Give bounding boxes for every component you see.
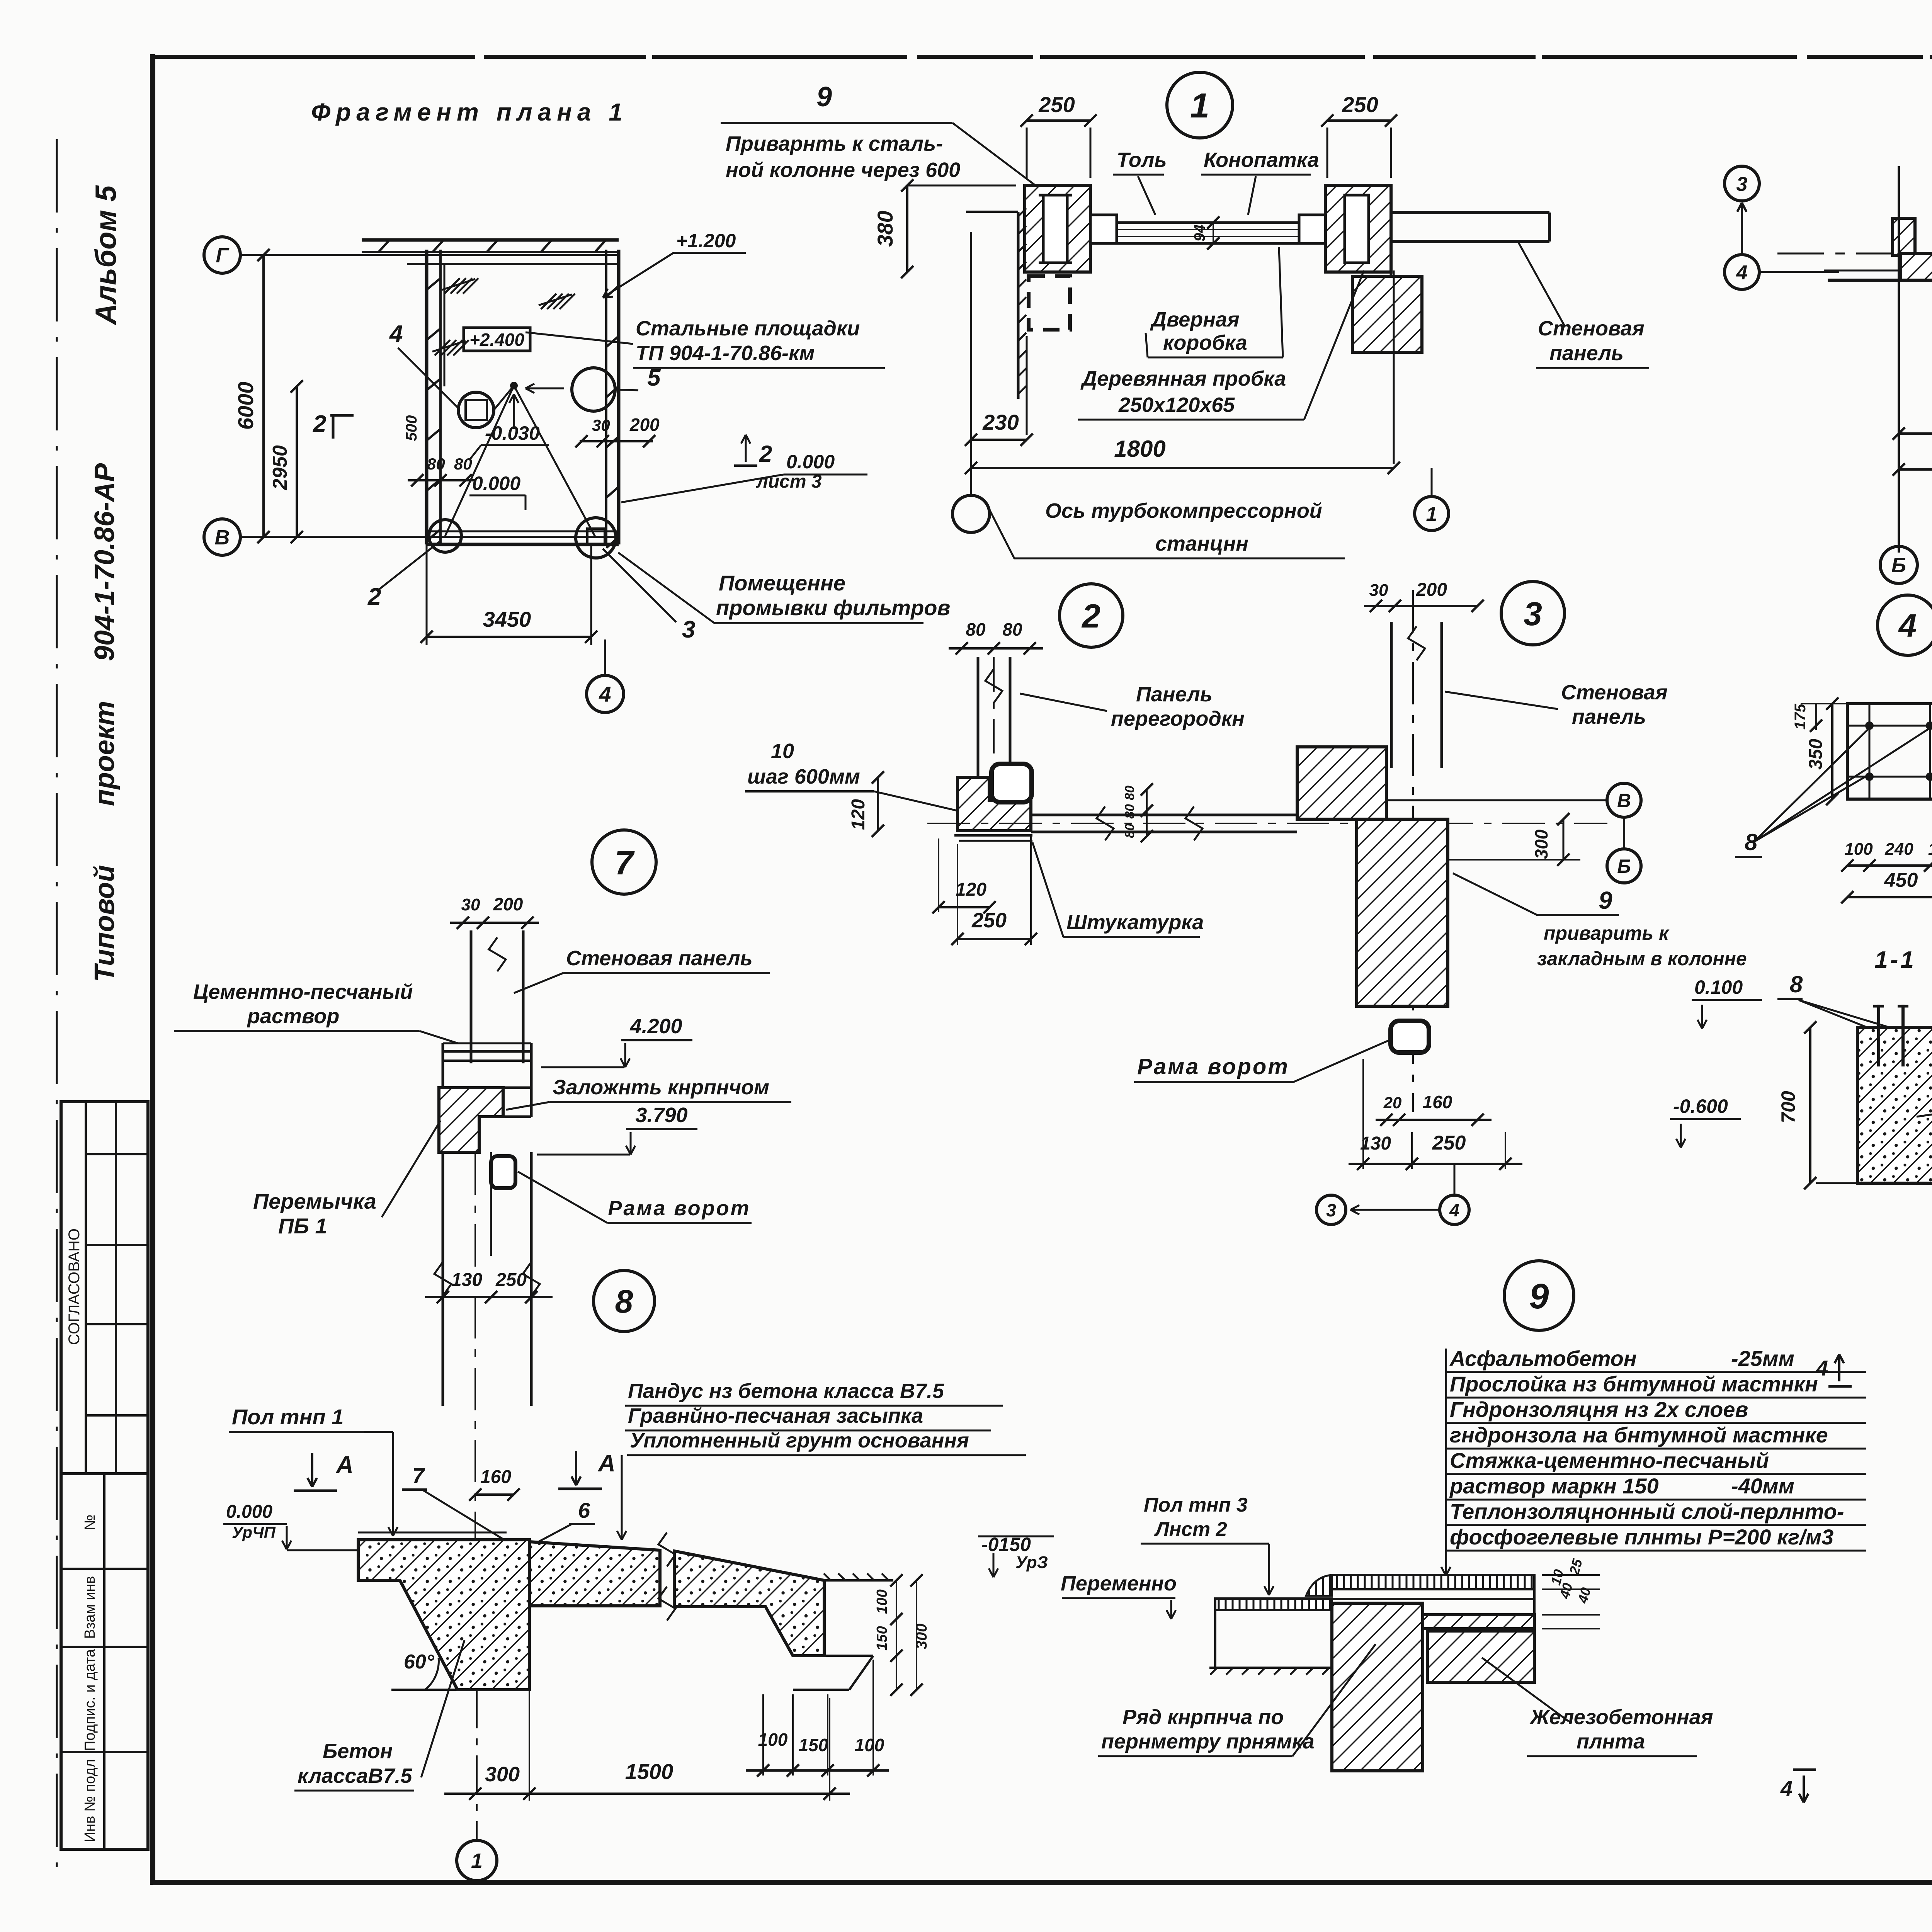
svg-text:9: 9: [1599, 886, 1612, 914]
svg-text:20: 20: [1383, 1094, 1402, 1112]
svg-text:4: 4: [599, 682, 611, 706]
svg-text:130: 130: [451, 1270, 482, 1290]
svg-text:2: 2: [367, 583, 381, 610]
svg-text:плнта: плнта: [1577, 1730, 1645, 1753]
svg-text:8: 8: [615, 1283, 633, 1320]
svg-text:30: 30: [592, 416, 610, 434]
svg-text:Пол тнп 1: Пол тнп 1: [232, 1405, 344, 1429]
svg-text:4: 4: [1736, 262, 1748, 284]
svg-text:450: 450: [1884, 869, 1918, 891]
svg-text:200: 200: [629, 415, 660, 435]
svg-text:2: 2: [313, 411, 326, 437]
svg-text:30: 30: [1369, 581, 1388, 600]
svg-text:-0.030: -0.030: [485, 422, 540, 444]
svg-text:1: 1: [471, 1849, 483, 1872]
svg-text:Помещенне: Помещенне: [719, 571, 845, 595]
svg-text:300: 300: [913, 1624, 930, 1650]
svg-text:УрЗ: УрЗ: [1015, 1553, 1048, 1572]
svg-text:гндронзола на бнтумной мастнке: гндронзола на бнтумной мастнке: [1450, 1423, 1828, 1447]
svg-text:230: 230: [982, 410, 1019, 434]
svg-text:80: 80: [1122, 786, 1137, 800]
svg-text:200: 200: [1416, 580, 1447, 600]
svg-text:500: 500: [403, 415, 420, 441]
svg-text:Прослойка нз бнтумной мастнкн: Прослойка нз бнтумной мастнкн: [1450, 1372, 1818, 1396]
svg-text:175: 175: [1792, 704, 1809, 730]
svg-text:94: 94: [1191, 224, 1208, 242]
svg-text:Г: Г: [216, 244, 230, 267]
svg-text:80: 80: [966, 619, 986, 639]
svg-text:4: 4: [389, 321, 403, 347]
svg-text:240: 240: [1884, 840, 1913, 859]
svg-text:4: 4: [1449, 1200, 1459, 1220]
svg-text:Пол тнп 3: Пол тнп 3: [1144, 1494, 1248, 1516]
svg-text:80: 80: [1122, 804, 1137, 819]
svg-text:7: 7: [412, 1463, 425, 1488]
svg-text:Стеновая: Стеновая: [1561, 681, 1668, 704]
svg-text:Перемычка: Перемычка: [253, 1189, 376, 1213]
svg-text:панель: панель: [1572, 705, 1646, 728]
svg-text:3450: 3450: [483, 607, 531, 631]
svg-text:Б: Б: [1891, 554, 1906, 577]
svg-text:+2.400: +2.400: [469, 330, 524, 350]
svg-text:3.790: 3.790: [635, 1104, 687, 1127]
svg-text:300: 300: [485, 1763, 520, 1786]
svg-text:80: 80: [427, 455, 445, 473]
svg-text:250: 250: [971, 909, 1007, 932]
svg-text:904-1-70.86-АР: 904-1-70.86-АР: [89, 463, 120, 661]
svg-text:1: 1: [1426, 503, 1437, 526]
svg-text:Бетон: Бетон: [323, 1740, 393, 1763]
svg-text:9: 9: [816, 82, 832, 112]
svg-text:раствор маркн 150: раствор маркн 150: [1449, 1474, 1659, 1498]
svg-text:ПБ 1: ПБ 1: [278, 1214, 327, 1238]
svg-text:ной колонне через 600: ной колонне через 600: [726, 158, 960, 182]
svg-text:30: 30: [461, 895, 480, 914]
svg-text:100: 100: [874, 1589, 890, 1614]
svg-text:шаг 600мм: шаг 600мм: [747, 765, 860, 788]
svg-text:1-1: 1-1: [1874, 947, 1916, 973]
svg-text:ТП 904-1-70.86-км: ТП 904-1-70.86-км: [636, 342, 815, 365]
svg-text:промывки фильтров: промывки фильтров: [716, 595, 950, 620]
svg-text:150: 150: [799, 1735, 828, 1755]
svg-text:80: 80: [454, 455, 472, 473]
svg-text:4: 4: [1816, 1356, 1828, 1380]
svg-text:Теплонзоляцнонный слой-перлнто: Теплонзоляцнонный слой-перлнто-: [1450, 1499, 1844, 1524]
svg-text:А: А: [335, 1452, 354, 1478]
svg-text:350: 350: [1806, 739, 1826, 770]
svg-text:200: 200: [493, 894, 523, 914]
svg-text:6: 6: [578, 1498, 590, 1522]
svg-text:380: 380: [873, 211, 897, 247]
svg-text:2950: 2950: [269, 445, 291, 490]
svg-text:3: 3: [1736, 173, 1748, 196]
svg-text:-0.600: -0.600: [1673, 1095, 1728, 1117]
svg-text:250: 250: [1342, 92, 1378, 117]
svg-text:0.100: 0.100: [1694, 976, 1743, 998]
svg-text:Уплотненный грунт основання: Уплотненный грунт основання: [630, 1429, 969, 1452]
svg-text:-40мм: -40мм: [1731, 1474, 1794, 1498]
svg-text:Типовой: Типовой: [89, 865, 120, 982]
svg-text:160: 160: [480, 1467, 511, 1487]
svg-text:Лнст 2: Лнст 2: [1154, 1518, 1227, 1541]
svg-text:1500: 1500: [625, 1759, 673, 1784]
svg-text:-0150: -0150: [981, 1534, 1031, 1555]
svg-text:1: 1: [1190, 87, 1209, 125]
svg-text:Штукатурка: Штукатурка: [1066, 911, 1204, 934]
svg-text:4.200: 4.200: [629, 1015, 682, 1038]
svg-text:6000: 6000: [233, 382, 258, 430]
svg-text:Дверная: Дверная: [1150, 308, 1240, 331]
svg-text:100: 100: [855, 1735, 884, 1755]
svg-text:0.000: 0.000: [472, 473, 520, 494]
svg-text:А: А: [597, 1450, 616, 1477]
svg-text:3: 3: [1524, 595, 1542, 633]
svg-text:Переменно: Переменно: [1061, 1572, 1177, 1595]
svg-text:9: 9: [1529, 1277, 1549, 1316]
svg-text:250: 250: [1038, 92, 1075, 117]
svg-text:Подпис. и дата: Подпис. и дата: [82, 1649, 98, 1751]
svg-text:закладным в колонне: закладным в колонне: [1537, 948, 1747, 969]
svg-text:700: 700: [1777, 1091, 1799, 1123]
svg-text:-25мм: -25мм: [1731, 1346, 1794, 1371]
svg-text:250: 250: [495, 1270, 527, 1290]
svg-text:0.000: 0.000: [786, 451, 835, 473]
svg-text:Фрагмент плана 1: Фрагмент плана 1: [311, 98, 628, 126]
svg-text:250х120х65: 250х120х65: [1118, 393, 1235, 417]
svg-text:2: 2: [1081, 598, 1100, 635]
svg-text:Стеновая панель: Стеновая панель: [566, 947, 753, 970]
svg-text:250: 250: [1432, 1132, 1466, 1154]
svg-text:0.000: 0.000: [226, 1502, 272, 1522]
svg-text:Конопатка: Конопатка: [1204, 148, 1319, 172]
svg-text:Деревянная пробка: Деревянная пробка: [1080, 367, 1286, 390]
svg-text:8: 8: [1790, 971, 1803, 997]
svg-text:№: №: [82, 1515, 98, 1531]
svg-text:станцнн: станцнн: [1155, 532, 1248, 555]
svg-text:панель: панель: [1549, 342, 1624, 365]
svg-text:В: В: [215, 526, 230, 549]
svg-text:Толь: Толь: [1117, 148, 1167, 172]
svg-text:раствор: раствор: [247, 1005, 339, 1028]
svg-text:коробка: коробка: [1163, 331, 1247, 354]
svg-text:Приварнть к сталь-: Приварнть к сталь-: [726, 132, 943, 155]
svg-text:Гндронзоляцня нз 2х слоев: Гндронзоляцня нз 2х слоев: [1450, 1397, 1748, 1422]
svg-text:3: 3: [1326, 1200, 1336, 1220]
svg-text:Стальные площадки: Стальные площадки: [636, 317, 860, 340]
svg-text:160: 160: [1423, 1092, 1452, 1112]
svg-text:Ось турбокомпрессорной: Ось турбокомпрессорной: [1045, 499, 1322, 522]
svg-text:+1.200: +1.200: [676, 230, 736, 252]
svg-text:4: 4: [1780, 1776, 1793, 1801]
svg-text:Асфальтобетон: Асфальтобетон: [1449, 1346, 1637, 1371]
svg-text:100: 100: [1844, 840, 1873, 859]
svg-text:Стяжка-цементно-песчаный: Стяжка-цементно-песчаный: [1450, 1448, 1769, 1473]
svg-text:Пандус нз бетона класса В7.5: Пандус нз бетона класса В7.5: [628, 1379, 944, 1403]
svg-text:Взам инв: Взам инв: [82, 1576, 98, 1639]
svg-text:120: 120: [956, 879, 986, 900]
svg-text:300: 300: [1531, 829, 1551, 859]
svg-text:проект: проект: [89, 701, 120, 806]
svg-text:120: 120: [848, 799, 869, 830]
svg-text:В: В: [1617, 790, 1631, 811]
svg-text:130: 130: [1360, 1133, 1391, 1154]
svg-text:УрЧП: УрЧП: [232, 1523, 276, 1541]
svg-text:Инв № подл: Инв № подл: [82, 1759, 98, 1842]
svg-text:1800: 1800: [1114, 436, 1165, 462]
svg-text:Ряд кнрпнча по: Ряд кнрпнча по: [1122, 1706, 1284, 1729]
svg-text:Стеновая: Стеновая: [1538, 317, 1645, 340]
svg-text:80: 80: [1122, 823, 1137, 838]
svg-text:Железобетонная: Железобетонная: [1529, 1706, 1713, 1729]
svg-text:Б: Б: [1617, 855, 1631, 877]
svg-text:приварить к: приварить к: [1544, 922, 1670, 944]
svg-text:Альбом 5: Альбом 5: [90, 185, 122, 325]
svg-text:пернметру прнямка: пернметру прнямка: [1101, 1730, 1315, 1753]
svg-text:Рама ворот: Рама ворот: [1137, 1054, 1289, 1079]
svg-text:80: 80: [1002, 619, 1022, 639]
svg-text:60°: 60°: [404, 1651, 435, 1673]
svg-text:Рама ворот: Рама ворот: [608, 1197, 750, 1220]
svg-text:7: 7: [615, 844, 635, 882]
svg-text:4: 4: [1898, 607, 1917, 644]
svg-text:СОГЛАСОВАНО: СОГЛАСОВАНО: [66, 1228, 83, 1345]
svg-text:классаВ7.5: классаВ7.5: [298, 1764, 412, 1787]
svg-text:Цементно-песчаный: Цементно-песчаный: [193, 980, 413, 1003]
svg-text:Гравнйно-песчаная засыпка: Гравнйно-песчаная засыпка: [628, 1404, 923, 1427]
svg-text:10: 10: [771, 740, 794, 763]
svg-text:Заложнть кнрпнчом: Заложнть кнрпнчом: [553, 1076, 769, 1099]
svg-text:110: 110: [1928, 840, 1932, 859]
svg-text:2: 2: [759, 441, 772, 467]
svg-text:3: 3: [682, 616, 695, 643]
svg-text:8: 8: [1745, 829, 1758, 855]
svg-text:фосфогелевые плнты Р=200 кг/м3: фосфогелевые плнты Р=200 кг/м3: [1450, 1525, 1833, 1549]
svg-text:150: 150: [874, 1626, 890, 1650]
svg-text:Панель: Панель: [1136, 683, 1213, 706]
svg-text:перегородкн: перегородкн: [1111, 707, 1245, 730]
